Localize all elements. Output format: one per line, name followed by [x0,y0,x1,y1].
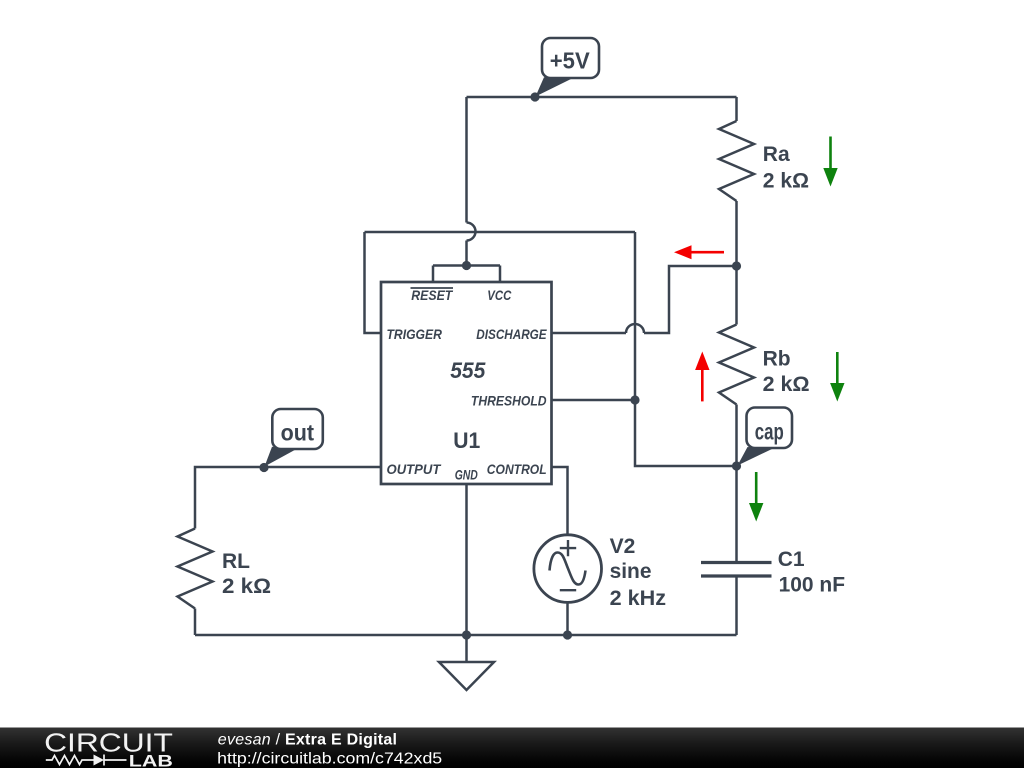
node out [259,463,268,472]
wire vertical hop to reset bus node [465,241,468,266]
svg-text:GND: GND [455,467,478,483]
svg-text:RL: RL [222,550,250,573]
wire RL bottom to bottom rail [194,609,197,636]
svg-text:Ra: Ra [763,143,790,166]
svg-text:2 kΩ: 2 kΩ [222,575,271,598]
current arrow green Ra [823,137,837,187]
wire threshold pin [552,399,635,402]
wire trigger rail [365,231,636,234]
V2 minus sign [560,589,576,591]
node threshold [630,395,639,404]
wire right rail top [735,97,738,121]
current arrow green cap [749,472,763,522]
svg-text:LAB: LAB [129,752,173,768]
node gnd [462,630,471,639]
wire bottom rail [195,634,737,637]
logo schematic [46,755,127,766]
wire left vertical from +5V rail down to hop [465,97,468,223]
svg-text:cap: cap [755,419,784,445]
wire V2 bottom to rail [566,603,569,636]
svg-text:out: out [281,420,315,446]
node cap [732,461,741,470]
flag cap [738,408,793,466]
node reset bus [462,261,471,270]
svg-text:http://circuitlab.com/c742xd5: http://circuitlab.com/c742xd5 [217,751,442,768]
op-amp U1 555 box [381,282,552,484]
svg-text:RESET: RESET [411,287,453,303]
wire Ra bottom to node [735,201,738,266]
resistor Rb [719,325,754,405]
wire control pin to V2 [552,467,568,535]
capacitor C1 plates [701,563,772,577]
V2 plus sign [560,540,576,556]
wire output pin to left rail [195,467,381,529]
svg-text:CONTROL: CONTROL [487,461,547,477]
flag +5V [536,38,600,97]
resistor RL [178,529,213,609]
node Ra/Rb/discharge [732,261,741,270]
ground symbol [439,662,494,690]
svg-text:sine: sine [610,560,652,583]
V2 sine wave [550,553,586,585]
svg-text:DISCHARGE: DISCHARGE [476,326,547,342]
node V2 bottom [563,630,572,639]
svg-text:2 kΩ: 2 kΩ [763,169,809,192]
resistor Ra [719,121,754,201]
svg-text:VCC: VCC [487,287,512,303]
wire discharge pin with hop [552,266,737,333]
flag out [265,409,323,467]
wire threshold vertical to cap node [635,232,737,466]
svg-text:TRIGGER: TRIGGER [387,326,443,342]
svg-text:evesan / Extra E Digital: evesan / Extra E Digital [218,731,397,748]
current arrow green Rb [830,352,844,402]
svg-text:THRESHOLD: THRESHOLD [471,393,547,409]
wire gnd pin [465,485,468,662]
svg-text:V2: V2 [610,535,636,558]
svg-text:100 nF: 100 nF [779,573,846,596]
wire node to Rb top [735,266,738,325]
svg-text:555: 555 [450,358,486,383]
current arrow red left [674,245,724,259]
svg-text:C1: C1 [778,548,805,571]
555 pin labels [387,287,548,483]
wire top rail +5V [467,96,737,99]
wire trigger leg [365,232,382,333]
svg-text:2 kΩ: 2 kΩ [763,373,810,396]
svg-text:2 kHz: 2 kHz [610,587,666,610]
wire hop over trigger rail [467,223,476,241]
wire reset/vcc bus [433,266,500,283]
svg-text:OUTPUT: OUTPUT [387,461,442,477]
wire C1 bottom to bottom rail [735,578,738,636]
svg-text:+5V: +5V [550,48,591,74]
svg-text:Rb: Rb [763,347,791,370]
wire Rb bottom through cap node to C1 [735,405,738,563]
voltage source V2 circle [534,535,602,603]
node +5V junction [530,92,539,101]
current arrow red up Rb [695,352,709,402]
svg-text:U1: U1 [453,428,480,453]
footer bar [0,728,1024,768]
